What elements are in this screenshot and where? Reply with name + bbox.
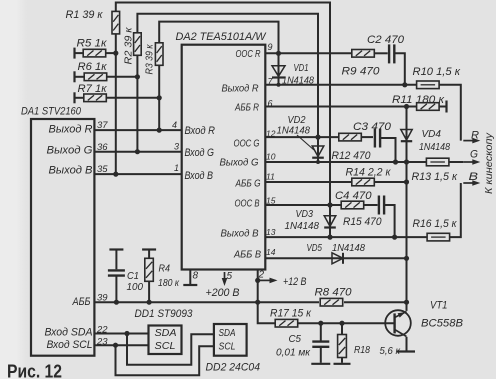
svg-text:DD2 24C04: DD2 24C04 [206, 362, 261, 374]
svg-text:DA2 TEA5101A/W: DA2 TEA5101A/W [176, 31, 268, 43]
wire C3 to Выход G [380, 138, 395, 162]
label DA1 Вход SDA [45, 326, 93, 338]
label R12 [332, 150, 372, 162]
power +12V arrow [259, 278, 278, 284]
svg-text:R10 1,5 к: R10 1,5 к [413, 66, 461, 78]
pin 22 [96, 325, 108, 336]
label VD5 value [332, 242, 365, 254]
svg-text:ООС G: ООС G [234, 137, 260, 149]
node W1/ООС B [327, 202, 332, 207]
wire АББ B row left [265, 257, 328, 259]
terminal R5 input [73, 48, 75, 59]
svg-text:Вход B: Вход B [185, 170, 214, 182]
svg-text:R13 1,5 к: R13 1,5 к [412, 171, 458, 183]
svg-text:VD5: VD5 [307, 242, 323, 254]
resistor R6 [84, 73, 107, 81]
resistor R18 [338, 323, 347, 363]
svg-text:9: 9 [268, 42, 273, 52]
svg-text:C5: C5 [289, 333, 302, 345]
svg-text:4: 4 [172, 120, 177, 130]
label VD5 [307, 242, 323, 254]
label DA2 [176, 31, 268, 43]
wire SCL to DD2 [116, 345, 214, 375]
pin 4 [172, 120, 177, 130]
label C3 [353, 121, 392, 133]
resistor R1 [112, 11, 120, 34]
resistor R11 [417, 103, 440, 111]
capacitor C5 [312, 323, 329, 363]
terminal R6 input [73, 71, 75, 82]
wire R6 row [75, 76, 138, 78]
wire column R2-R6 down [136, 55, 138, 152]
label R18 value [380, 345, 401, 357]
node +12V tap [255, 278, 260, 283]
wire АББ R row [265, 106, 417, 108]
label VD3 [296, 208, 314, 220]
node VD1 bottom [277, 83, 281, 87]
transistor VT1 [385, 310, 411, 336]
svg-text:Вход G: Вход G [185, 147, 215, 159]
node VD4 col / Выход G [404, 159, 409, 164]
node R2/R6 junction [135, 74, 140, 79]
svg-text:АББ: АББ [72, 296, 91, 308]
resistor R17 [275, 319, 298, 327]
ground C5 [311, 363, 330, 365]
svg-text:180 к: 180 к [158, 277, 180, 289]
node col2 to Vhod-G line [135, 149, 140, 154]
label R3 [144, 44, 156, 75]
svg-text:R: R [471, 129, 479, 141]
svg-text:Рис. 12: Рис. 12 [7, 361, 62, 379]
svg-text:VD3: VD3 [296, 208, 314, 220]
wire Выход R to Вход R [94, 129, 181, 131]
wire VD2 leader [297, 135, 314, 150]
label DD2 SCL [219, 340, 236, 352]
resistor R10 [417, 81, 440, 89]
wire column R3-R7 down [158, 65, 160, 131]
svg-text:АББ B: АББ B [233, 249, 261, 261]
svg-text:14: 14 [266, 247, 276, 257]
label DA2 Вход B [185, 170, 214, 182]
wire R17 branch [258, 302, 275, 323]
label B output [469, 171, 479, 183]
label VD4 [422, 128, 442, 140]
label R14 [346, 167, 392, 179]
svg-text:VD4: VD4 [422, 128, 442, 140]
label DA1 Выход R [49, 124, 93, 136]
label DD2 [206, 362, 261, 374]
node C5 junction [318, 321, 323, 326]
pin 9 [268, 42, 273, 52]
wire АББ row [94, 301, 406, 303]
label VD2 [288, 114, 306, 126]
node R4 junction [147, 300, 152, 305]
resistor R14 [352, 178, 375, 186]
label VD1 value [282, 74, 314, 86]
diode VD2 [312, 137, 324, 162]
terminal pin8 bar [183, 284, 197, 286]
svg-text:Выход R: Выход R [222, 83, 259, 95]
resistor R16 [427, 233, 450, 241]
svg-text:R1 39 к: R1 39 к [66, 9, 104, 21]
pin 6 [268, 99, 273, 109]
pin 10 [266, 152, 276, 162]
wire SDA row [94, 333, 148, 335]
pin 14 [266, 247, 276, 257]
label R16 [413, 218, 458, 230]
wire R11 to terminal [439, 106, 447, 108]
label R11 [392, 94, 445, 106]
node C3/Выход G [393, 159, 398, 164]
svg-text:R5 1к: R5 1к [77, 38, 108, 50]
IC DA1 STV2160 box [31, 119, 94, 356]
pin 2 [258, 270, 265, 281]
svg-text:VT1: VT1 [430, 300, 448, 312]
svg-text:+200 В: +200 В [206, 287, 240, 299]
label R4 [159, 263, 171, 275]
label C5 value [276, 347, 311, 359]
svg-text:АББ R: АББ R [234, 102, 259, 114]
wire R7 row [75, 97, 160, 99]
label DA1 АББ [72, 296, 91, 308]
svg-text:SCL: SCL [155, 340, 176, 352]
wire АББ B row right [345, 257, 407, 259]
node АББ R / VD4 column [404, 104, 409, 109]
pin 13 [266, 227, 276, 237]
IC DD1 box [149, 326, 182, 355]
svg-text:К кинескопу: К кинескопу [483, 132, 495, 194]
IC DA2 TEA5101A/W box [182, 45, 266, 270]
pin 35 [97, 164, 108, 175]
label DA1 Вход SCL [47, 339, 93, 351]
wire ООС G row [265, 136, 373, 138]
svg-text:Выход B: Выход B [221, 228, 259, 240]
caption Рис. 12 [7, 361, 62, 379]
svg-text:R7 1к: R7 1к [78, 83, 108, 95]
node R1/R5 junction [113, 51, 118, 56]
terminal R7 input [73, 92, 75, 103]
label R4 value [158, 277, 180, 289]
pin 39 [97, 293, 108, 304]
svg-text:10: 10 [266, 152, 276, 162]
svg-text:ООС R: ООС R [236, 48, 261, 60]
label АББ G [235, 178, 261, 190]
node VD5 / VD4 column [404, 256, 409, 261]
pin 3 [174, 142, 179, 152]
label АББ B [233, 249, 261, 261]
label DD2 SDA [219, 327, 236, 339]
svg-text:C3 470: C3 470 [353, 121, 392, 133]
label ООС G [234, 137, 260, 149]
label Выход G [220, 156, 259, 168]
node VD2 bottom [316, 160, 320, 164]
pin 15 [266, 196, 276, 206]
svg-text:1N4148: 1N4148 [419, 141, 450, 153]
label C1 [127, 270, 139, 282]
wire column R1-R5 down [115, 34, 117, 175]
label +12 В [283, 276, 307, 288]
wire АББ G row [265, 181, 406, 183]
node R8 / VT1 emitter [404, 300, 409, 305]
pin 23 [96, 336, 108, 347]
label ООС R [236, 48, 261, 60]
label R2 [123, 26, 135, 64]
node R14 / VD4 column [404, 179, 409, 184]
label VT1 type [421, 317, 463, 329]
wire net R3-to-OOC-R top [159, 22, 278, 54]
node ООС R / VD1 [276, 51, 281, 56]
label VD4 value [419, 141, 450, 153]
wire base row [298, 322, 395, 324]
label Выход B [221, 228, 259, 240]
resistor R5 [83, 49, 106, 57]
label К кинескопу [483, 132, 495, 194]
svg-text:Выход G: Выход G [47, 144, 93, 156]
wire pin8 stub [189, 270, 191, 285]
pin 5 [227, 271, 233, 282]
resistor R12 [339, 133, 362, 141]
label R10 [413, 66, 461, 78]
IC DD2 box [214, 324, 247, 356]
label VD1 [294, 62, 309, 74]
pin 11 [266, 172, 275, 182]
arrow R output [463, 138, 480, 144]
node C1 junction [114, 300, 119, 305]
label R8 [315, 286, 353, 298]
wire net R2-to-OOC-G top [137, 14, 318, 137]
svg-text:1N4148: 1N4148 [332, 242, 365, 254]
pin 37 [97, 120, 108, 131]
capacitor C4 [379, 196, 384, 215]
svg-text:100: 100 [127, 281, 144, 293]
resistor R9 [352, 50, 375, 58]
svg-text:Вход SDA: Вход SDA [45, 326, 93, 338]
label R17 [270, 308, 312, 320]
arrow B output [463, 180, 480, 186]
label R output [471, 129, 479, 141]
svg-text:R17 15 к: R17 15 к [270, 308, 312, 320]
wire VD4 column down [406, 144, 408, 311]
label DD1 [135, 308, 193, 320]
node R3/R7 junction [157, 95, 162, 100]
label R15 [343, 216, 382, 228]
wire pin2 down [257, 270, 259, 303]
node R18 junction [339, 321, 344, 326]
svg-text:0,01 мк: 0,01 мк [276, 347, 311, 359]
label G output [470, 148, 478, 160]
svg-text:ООС B: ООС B [235, 198, 260, 210]
svg-text:SDA: SDA [219, 327, 236, 339]
label Выход R [222, 83, 259, 95]
svg-text:1N4148: 1N4148 [277, 124, 311, 136]
svg-text:Выход R: Выход R [49, 124, 93, 136]
svg-text:R15 470: R15 470 [343, 216, 382, 228]
ground VT1 [397, 350, 415, 352]
wire Выход G row [265, 161, 463, 163]
label DA1 [21, 106, 82, 118]
label R5 [77, 38, 108, 50]
wire Выход B to Вход B [94, 173, 181, 175]
label C2 [367, 34, 405, 46]
svg-text:G: G [470, 148, 478, 160]
capacitor C2 [389, 44, 394, 63]
label ООС B [235, 198, 260, 210]
node SDA branch [124, 331, 129, 336]
label DA2 Вход G [185, 147, 215, 159]
label R13 [412, 171, 458, 183]
svg-text:BC558B: BC558B [421, 317, 463, 329]
diode VD3 [324, 205, 336, 237]
wire net R1-to-OOC-B top [116, 3, 330, 206]
label DA1 Выход G [47, 144, 93, 156]
svg-text:R16 1,5 к: R16 1,5 к [413, 218, 458, 230]
wire Выход R row [265, 84, 417, 86]
pin 7 [268, 77, 274, 87]
label DD1 SDA [155, 327, 177, 339]
svg-text:3: 3 [174, 142, 179, 152]
svg-text:Вход R: Вход R [185, 125, 216, 137]
label DD1 SCL [155, 340, 176, 352]
wire SCL row [94, 344, 148, 346]
node SCL branch [113, 343, 118, 348]
power pin5 +200V arrow [222, 272, 228, 286]
pin 8 [193, 271, 199, 282]
svg-text:R11 180 к: R11 180 к [392, 94, 445, 106]
wire ООС B row [265, 204, 377, 206]
wire C2 to Выход R [394, 53, 405, 85]
svg-text:R18: R18 [354, 344, 370, 356]
svg-text:R12 470: R12 470 [332, 150, 372, 162]
svg-text:АББ G: АББ G [235, 178, 261, 190]
svg-text:R14 2,2 к: R14 2,2 к [346, 167, 392, 179]
terminal C1 top [109, 248, 123, 250]
label DA1 Выход B [49, 164, 93, 176]
wire Выход B row [265, 236, 427, 238]
label R1 [66, 9, 104, 21]
label R18 [354, 344, 370, 356]
svg-text:В: В [469, 171, 479, 183]
svg-text:VD1: VD1 [294, 62, 309, 74]
wire ООС R row [265, 52, 387, 54]
wire R16 to B output [449, 183, 461, 237]
resistor R13 [426, 158, 449, 166]
resistor R8 [320, 298, 343, 306]
label R7 [78, 83, 108, 95]
label АББ R [234, 102, 259, 114]
label C1 value [127, 281, 144, 293]
resistor R4 [145, 250, 154, 303]
svg-text:1N4148: 1N4148 [285, 220, 320, 232]
svg-text:Вход SCL: Вход SCL [47, 339, 93, 351]
svg-text:5: 5 [227, 271, 233, 282]
label DA2 Вход R [185, 125, 216, 137]
svg-text:C2 470: C2 470 [367, 34, 405, 46]
label R9 [342, 66, 381, 78]
svg-text:Выход B: Выход B [49, 164, 93, 176]
capacitor C1 [108, 250, 125, 303]
svg-text:8: 8 [193, 271, 199, 282]
wire VT1 collector down [406, 337, 408, 351]
node C2/Выход R [402, 82, 407, 87]
svg-text:1: 1 [174, 163, 179, 173]
label C5 [289, 333, 302, 345]
diode VD1 [272, 53, 285, 85]
svg-text:DA1 STV2160: DA1 STV2160 [21, 106, 82, 118]
svg-text:SDA: SDA [155, 327, 177, 339]
capacitor C3 [375, 129, 380, 148]
wire R10 to R output [439, 85, 461, 141]
pin 12 [266, 129, 276, 139]
svg-text:R8 470: R8 470 [315, 286, 353, 298]
svg-text:13: 13 [266, 227, 276, 237]
ground R18 [334, 363, 351, 365]
node C4/Выход B [392, 235, 397, 240]
wire SDA to DD2 [127, 334, 214, 365]
pin 1 [174, 163, 179, 173]
svg-text:R4: R4 [159, 263, 171, 275]
svg-text:11: 11 [266, 172, 275, 182]
wire C4 to Выход B [384, 205, 395, 237]
label +200 В [206, 287, 240, 299]
wire R5 row [75, 52, 116, 54]
pin 36 [97, 142, 108, 153]
node col3 to Vhod-R line [157, 128, 162, 133]
svg-text:R3 39 к: R3 39 к [144, 44, 156, 75]
svg-text:R6 1к: R6 1к [78, 61, 108, 73]
arrow G output [463, 159, 480, 165]
svg-text:+12 В: +12 В [283, 276, 307, 288]
label C4 [335, 190, 372, 202]
diode VD4 [401, 107, 412, 144]
svg-text:R9 470: R9 470 [342, 66, 381, 78]
svg-text:Выход G: Выход G [220, 156, 259, 168]
terminal R4 top [142, 248, 156, 250]
label VD2 value [277, 124, 311, 136]
resistor R15 [341, 201, 364, 209]
node col1 to Vhod-B line [113, 172, 118, 177]
label R6 [78, 61, 108, 73]
resistor R2 [134, 33, 142, 56]
svg-text:DD1 ST9093: DD1 ST9093 [135, 308, 193, 320]
wire Выход G to Вход G [94, 151, 181, 153]
svg-text:SCL: SCL [219, 340, 236, 352]
label VT1 [430, 300, 448, 312]
svg-text:R2 39 к: R2 39 к [123, 26, 135, 64]
diode VD5 [328, 253, 345, 264]
node pin2 junction [255, 300, 260, 305]
resistor R3 [155, 43, 163, 66]
svg-text:C4 470: C4 470 [335, 190, 372, 202]
node W2/ООС G [315, 135, 320, 140]
resistor R7 [84, 94, 107, 102]
node VD3 bottom [327, 235, 332, 240]
terminal R11 [445, 101, 447, 113]
label VD3 value [285, 220, 320, 232]
